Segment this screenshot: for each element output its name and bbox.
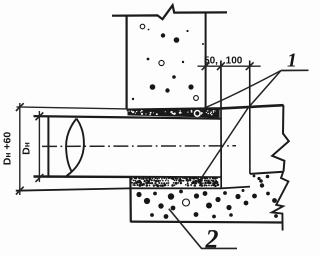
sleeve right end / extension line for dims: [220, 61, 222, 189]
sleeve top edge (continues right as foundation step top): [127, 105, 284, 110]
svg-text:Dн +60: Dн +60: [2, 132, 14, 166]
foundation step top (right): [250, 172, 284, 174]
concrete wall speckles: [132, 24, 204, 100]
foundation bottom edge: [131, 221, 283, 224]
svg-text:1: 1: [287, 50, 297, 72]
pipe top edge: [34, 116, 222, 119]
dimension line Dn: [36, 111, 44, 182]
right upper vertical with break symbol: [272, 105, 289, 172]
wall right edge / extension line for 50 dim: [205, 13, 207, 109]
wall top edge line with break symbol: [112, 5, 227, 19]
foundation left edge: [129, 177, 132, 222]
pipe centre line (dash-dot): [42, 145, 236, 148]
svg-text:2: 2: [205, 225, 219, 254]
extension line top of opening: [17, 107, 127, 109]
bottom seal packing band (stipple): [131, 177, 221, 188]
dimension line Dn+60: [16, 103, 24, 195]
leader line 1b to bottom seal with dot: [197, 71, 281, 184]
svg-text:Dн: Dн: [21, 142, 33, 155]
foundation right edge with break symbol: [272, 172, 289, 231]
wall left edge: [125, 15, 127, 109]
leader line 1a to top seal with dot: [194, 71, 281, 118]
pipe bottom edge: [34, 175, 222, 178]
dimension line 50 100: [198, 62, 261, 70]
svg-text:100: 100: [226, 55, 243, 66]
top seal packing band (dark stipple): [128, 109, 220, 118]
leader 1 tail: [281, 69, 309, 71]
pipe break ellipse: [66, 119, 84, 177]
foundation concrete speckles: [136, 175, 278, 219]
pipe left end: [47, 117, 49, 177]
opening bottom extension / sleeve bottom / foundation top line: [16, 187, 250, 191]
leader line 2 to foundation: [169, 209, 237, 249]
svg-text:50,: 50,: [204, 56, 218, 67]
extension line at 100 dim / step left edge: [249, 61, 251, 174]
